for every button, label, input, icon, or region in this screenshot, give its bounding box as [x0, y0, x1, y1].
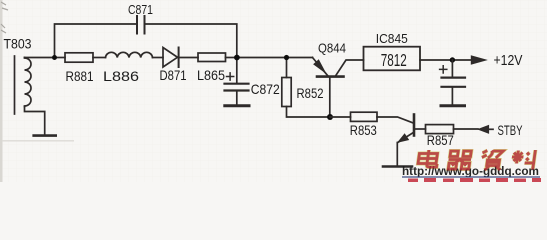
- wire R852 node to Q844 emitter: [287, 57, 313, 59]
- svg-text:IC845: IC845: [376, 31, 408, 46]
- svg-text:R853: R853: [350, 122, 377, 138]
- wire R857 to STBY arrow: [454, 128, 479, 130]
- transistor Q857 (NPN): [398, 115, 426, 143]
- svg-text:R881: R881: [66, 68, 94, 84]
- wire L886 to D871: [153, 57, 164, 59]
- STBY input arrow: [478, 126, 488, 134]
- capacitor C871: [137, 16, 145, 34]
- watermark char 1: [418, 150, 439, 167]
- regulator IC845 box: [364, 47, 421, 71]
- wire rail tap down to R852: [286, 58, 288, 78]
- watermark: [417, 150, 537, 170]
- svg-text:R857: R857: [427, 132, 454, 148]
- wire node B to C872: [236, 58, 238, 83]
- scan artifacts (left edge stripe and specks): [0, 0, 3, 182]
- capacitor C872 (electrolytic): [225, 73, 249, 105]
- svg-text:R852: R852: [297, 85, 324, 101]
- wire L865 to node B: [226, 57, 238, 59]
- wire R881 to L886: [93, 57, 106, 59]
- node B: [234, 55, 240, 61]
- ground (output cap): [441, 104, 465, 107]
- svg-text:STBY: STBY: [498, 122, 523, 138]
- ground (Q857): [383, 165, 412, 168]
- wire node A riser to top rail: [55, 24, 136, 58]
- svg-text:C872: C872: [251, 81, 280, 97]
- watermark char 4: [510, 150, 537, 170]
- svg-text:D871: D871: [160, 67, 187, 83]
- ground (T803): [34, 134, 56, 137]
- inductor L886: [106, 52, 153, 57]
- node R852 tap: [284, 55, 289, 60]
- node D (+12V / cap): [450, 57, 455, 62]
- resistor R852 (vertical): [282, 78, 291, 107]
- transistor Q844 (PNP): [313, 58, 364, 118]
- svg-text:L865: L865: [197, 67, 225, 83]
- watermark char 3: [480, 151, 503, 171]
- diode D871: [163, 48, 179, 68]
- svg-text:Q844: Q844: [318, 40, 346, 55]
- wire node B to R852 node: [237, 57, 287, 59]
- resistor R857: [426, 125, 454, 134]
- watermark char strokes (red): [418, 150, 439, 167]
- ground (C872): [225, 104, 249, 107]
- transformer T803: [15, 56, 32, 114]
- watermark char 2: [447, 151, 472, 169]
- svg-text:7812: 7812: [381, 50, 407, 70]
- resistor R881: [65, 53, 93, 62]
- resistor R853: [351, 112, 378, 121]
- svg-text:C871: C871: [128, 2, 153, 17]
- watermark bottom cropped row: [408, 178, 541, 182]
- wire T803 top to node A: [25, 57, 55, 59]
- wire node A to R881: [55, 57, 66, 59]
- wire T803 bottom lead to ground: [25, 107, 45, 135]
- svg-text:L886: L886: [103, 68, 139, 84]
- capacitor C846 (output electrolytic): [440, 66, 465, 104]
- node C (Q844 base / divider): [327, 114, 333, 120]
- wire Q857 emitter to ground: [396, 143, 398, 166]
- wire R853 to Q857 collector: [377, 117, 413, 123]
- svg-text:T803: T803: [4, 36, 32, 51]
- +12V output arrow: [471, 56, 486, 64]
- wire node C to R853: [330, 116, 351, 118]
- inductor L865 (boxed): [198, 53, 226, 62]
- svg-text:+12V: +12V: [494, 53, 523, 69]
- wire C871 to node B (top rail right leg): [146, 24, 237, 55]
- wire D871 to L865: [179, 57, 198, 59]
- node A: [52, 55, 57, 60]
- wire IC845 output to +12V arrow: [420, 59, 471, 61]
- wire node D to output cap: [451, 60, 453, 77]
- wire R852 bottom to base node line: [287, 107, 331, 118]
